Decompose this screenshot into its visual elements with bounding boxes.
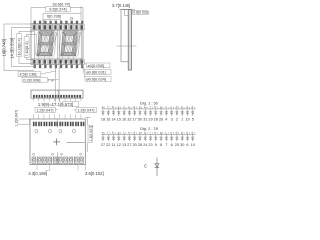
svg-text:f: f	[150, 131, 151, 135]
dimension 18.6 overall width	[31, 2, 83, 24]
svg-text:16: 16	[122, 118, 126, 122]
svg-text:1.2[0.047]: 1.2[0.047]	[89, 126, 93, 142]
extension ticks to back view top	[33, 114, 81, 119]
svg-text:22: 22	[106, 143, 110, 147]
pin diagram bus line	[102, 108, 196, 110]
svg-text:p: p	[181, 131, 183, 135]
svg-text:3: 3	[171, 118, 173, 122]
svg-text:ø0.8[0.031]: ø0.8[0.031]	[86, 70, 106, 75]
dimension 1.2 rotated left of back view	[15, 110, 30, 127]
svg-text:e: e	[128, 131, 130, 135]
dimension 1.2 rotated right of back view	[85, 118, 93, 153]
label dia 0.6 with leader	[82, 62, 112, 82]
dimension 6 digit width	[44, 14, 74, 24]
svg-text:ø0.6[0.024]: ø0.6[0.024]	[86, 76, 106, 81]
svg-text:6: 6	[186, 143, 188, 147]
svg-text:0.8[0.031]: 0.8[0.031]	[133, 11, 149, 15]
svg-text:1.2[0.047]: 1.2[0.047]	[15, 110, 19, 127]
svg-text:a: a	[144, 131, 146, 135]
svg-text:19: 19	[185, 118, 189, 122]
svg-text:3.7[0.146]: 3.7[0.146]	[112, 3, 130, 8]
svg-text:f: f	[107, 131, 108, 135]
svg-text:4: 4	[165, 118, 167, 122]
dimension 1.2 boxed right	[74, 108, 97, 113]
dimension 10.16 boxed (rotated)	[17, 31, 34, 63]
svg-text:p: p	[139, 131, 141, 135]
dimension 0.8 boxed with leader	[132, 10, 149, 14]
svg-text:p: p	[139, 105, 141, 109]
svg-text:4.3[0.169]: 4.3[0.169]	[28, 171, 47, 176]
svg-text:d: d	[133, 105, 135, 109]
svg-text:g: g	[160, 105, 162, 109]
svg-text:28: 28	[154, 118, 158, 122]
label dia 0.8 with leader	[81, 60, 112, 75]
svg-text:20: 20	[133, 143, 137, 147]
svg-text:d: d	[191, 131, 193, 135]
svg-text:27: 27	[101, 143, 105, 147]
svg-text:d: d	[191, 105, 193, 109]
svg-text:50: 50	[138, 118, 142, 122]
svg-text:a: a	[102, 131, 104, 135]
svg-text:7.62[0.3]: 7.62[0.3]	[24, 41, 29, 56]
svg-text:1.2[0.047]: 1.2[0.047]	[36, 107, 53, 112]
svg-text:14: 14	[111, 118, 115, 122]
svg-text:g: g	[160, 131, 162, 135]
pin diodes, segment letters, pin numbers	[102, 134, 105, 141]
front view top lead pads and stubs	[33, 21, 85, 30]
back view small holes above bottom pads	[33, 153, 82, 155]
svg-text:a: a	[102, 105, 104, 109]
back view center divider ticks	[57, 119, 59, 165]
svg-text:d: d	[176, 105, 178, 109]
svg-text:g: g	[118, 131, 120, 135]
7-segment digit DS1 with bond wires	[35, 25, 59, 62]
label dia 1 with leader	[80, 58, 111, 69]
svg-text:C: C	[144, 163, 147, 168]
front view package outline	[31, 24, 83, 65]
svg-text:30: 30	[180, 143, 184, 147]
svg-text:8: 8	[160, 143, 162, 147]
svg-text:29: 29	[148, 118, 152, 122]
dimension 1.2 boxed left	[35, 107, 58, 112]
svg-text:g: g	[118, 105, 120, 109]
dimension 7.62 boxed (rotated)	[24, 34, 36, 59]
svg-text:19[0.748]: 19[0.748]	[2, 39, 7, 56]
svg-text:b: b	[112, 105, 114, 109]
svg-text:a: a	[186, 105, 188, 109]
back view top solder pads	[33, 122, 84, 127]
extension lines to 1.2 pitch offset	[56, 65, 59, 102]
svg-text:a: a	[186, 131, 188, 135]
pin diodes, segment letters, pin numbers	[102, 109, 105, 116]
svg-text:25: 25	[175, 143, 179, 147]
LED polarity symbol	[155, 158, 159, 177]
svg-text:a: a	[144, 105, 146, 109]
dimension 3.7 side width	[112, 3, 135, 11]
svg-text:0.2[0.008]: 0.2[0.008]	[23, 77, 40, 82]
pin diagram bus line	[102, 133, 196, 135]
pin diagram header Dig. 1 : 50	[140, 100, 159, 105]
svg-text:2x: 2x	[70, 16, 74, 20]
side view centerline	[117, 45, 137, 47]
svg-text:18: 18	[101, 118, 105, 122]
svg-text:23: 23	[148, 143, 152, 147]
svg-text:1.9(9)=17.1[0.673]: 1.9(9)=17.1[0.673]	[38, 102, 73, 107]
svg-text:b: b	[112, 131, 114, 135]
bottom view outline	[31, 90, 83, 98]
svg-text:6[0.236]: 6[0.236]	[47, 14, 61, 19]
dimension 4.3 bottom left	[28, 165, 49, 176]
back view outline	[30, 119, 85, 165]
pin diagram header Dig. 2 : 25	[140, 126, 158, 131]
dimension 0.2 TYP boxed with leader	[22, 77, 59, 82]
svg-text:e: e	[170, 131, 172, 135]
svg-text:b: b	[155, 105, 157, 109]
svg-text:14.2[0.559]: 14.2[0.559]	[9, 38, 14, 59]
back view center mark	[53, 138, 60, 145]
svg-text:2: 2	[176, 118, 178, 122]
svg-text:16: 16	[106, 118, 110, 122]
side view body	[121, 10, 132, 70]
svg-text:12: 12	[117, 143, 121, 147]
front view bottom lead pads and stubs	[33, 59, 85, 68]
svg-text:f: f	[150, 105, 151, 109]
cathode label C	[144, 163, 147, 168]
svg-text:1.2[0.047]: 1.2[0.047]	[77, 108, 94, 113]
svg-text:9.5[0.374]: 9.5[0.374]	[49, 7, 66, 12]
svg-text:11: 11	[112, 143, 116, 147]
back view index holes	[35, 130, 76, 133]
back view section line	[67, 142, 85, 144]
svg-text:3.5[0.138]: 3.5[0.138]	[19, 72, 36, 77]
svg-text:6: 6	[171, 143, 173, 147]
svg-text:e: e	[170, 105, 172, 109]
svg-text:15: 15	[117, 118, 121, 122]
dimension 19 overall height (rotated)	[2, 24, 34, 71]
svg-text:TYP: TYP	[48, 78, 56, 82]
svg-text:17: 17	[133, 118, 137, 122]
dimension 14.2 (rotated)	[9, 27, 35, 66]
svg-text:10.16[0.4]: 10.16[0.4]	[17, 38, 22, 55]
svg-text:32: 32	[127, 118, 131, 122]
7-segment digit DS2 with bond wires	[59, 25, 83, 62]
svg-text:24: 24	[143, 143, 147, 147]
svg-text:ø1[0.039]: ø1[0.039]	[88, 63, 104, 68]
svg-text:28: 28	[138, 143, 142, 147]
svg-text:e: e	[128, 105, 130, 109]
svg-text:d: d	[133, 131, 135, 135]
svg-text:26: 26	[159, 118, 163, 122]
svg-text:d: d	[176, 131, 178, 135]
svg-text:13: 13	[122, 143, 126, 147]
svg-text:f: f	[107, 105, 108, 109]
svg-text:31: 31	[143, 118, 147, 122]
svg-text:b: b	[155, 131, 157, 135]
bottom view lead pads	[33, 95, 81, 98]
svg-text:2.6[0.102]: 2.6[0.102]	[85, 171, 104, 176]
svg-text:9: 9	[155, 143, 157, 147]
svg-text:p: p	[181, 105, 183, 109]
svg-text:1: 1	[181, 118, 183, 122]
svg-text:10: 10	[191, 143, 195, 147]
dimension 1.9(9)=17.1 lead pitch	[33, 98, 81, 107]
dimension 2.6 bottom right	[78, 165, 104, 176]
front view cavity lines	[31, 24, 83, 65]
dimension 3.5 boxed with leader	[18, 71, 56, 77]
svg-text:27: 27	[127, 143, 131, 147]
svg-text:5: 5	[192, 118, 194, 122]
back view bottom pads with holes	[32, 157, 83, 163]
dimension 9.5 boxed	[43, 6, 81, 24]
svg-text:7: 7	[165, 143, 167, 147]
